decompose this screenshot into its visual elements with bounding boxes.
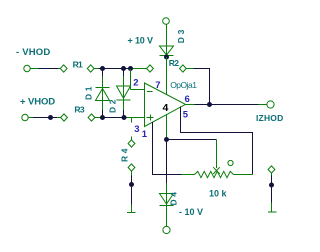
junction dot D1 bottom bbox=[100, 115, 105, 120]
wire bottom rail bbox=[95, 117, 145, 119]
svg-text:4: 4 bbox=[163, 102, 169, 114]
svg-text:7: 7 bbox=[155, 80, 160, 91]
diode D1 bbox=[96, 69, 110, 118]
svg-text:5: 5 bbox=[183, 110, 189, 121]
wire op-amp output bbox=[186, 104, 267, 106]
junction dot D2 top bbox=[121, 66, 126, 71]
wire top rail bbox=[94, 68, 147, 70]
resistor R1 right pin diamond bbox=[87, 65, 94, 72]
potentiometer 10k zigzag bbox=[195, 171, 234, 177]
wire R4 to ground bbox=[131, 176, 133, 212]
wire R2 to output node bbox=[186, 69, 210, 105]
terminal -10V circle bbox=[163, 226, 170, 233]
junction dot D1 top bbox=[100, 66, 105, 71]
diode D2 bbox=[117, 69, 131, 118]
svg-text:1: 1 bbox=[142, 129, 148, 140]
junction dot on +VHOD wire bbox=[48, 115, 53, 120]
svg-text:3: 3 bbox=[134, 124, 139, 135]
terminal +VHOD left bbox=[22, 114, 28, 120]
pot terminal circle bbox=[228, 160, 233, 165]
svg-text:6: 6 bbox=[185, 94, 190, 105]
svg-text:- VHOD: - VHOD bbox=[16, 47, 50, 58]
diode D4 bbox=[160, 194, 174, 227]
svg-text:R2: R2 bbox=[169, 58, 179, 68]
svg-text:2: 2 bbox=[133, 78, 138, 89]
wire pin4 to V- node bbox=[166, 115, 168, 140]
pin diamond right ground column bbox=[268, 166, 275, 176]
resistor R2 left pin diamond bbox=[147, 65, 154, 72]
wire +VHOD horizontal bbox=[28, 117, 60, 119]
terminal IZHOD circle bbox=[267, 101, 274, 108]
wire +10V to D3 bbox=[166, 24, 168, 55]
wire right ground column bbox=[271, 176, 273, 212]
svg-text:IZHOD: IZHOD bbox=[256, 113, 283, 123]
ground symbol right bbox=[268, 211, 277, 213]
wire D3 to op-amp pin7 bbox=[166, 57, 168, 95]
wire -VHOD horizontal bbox=[30, 68, 60, 70]
svg-text:R1: R1 bbox=[73, 60, 83, 70]
pin diamond -VHOD right / R1 left bbox=[60, 65, 67, 72]
wire V- node to pot wiper bbox=[167, 140, 217, 169]
junction dot V- node bbox=[164, 137, 169, 142]
svg-text:10 k: 10 k bbox=[209, 188, 228, 198]
wire R4 top stub bbox=[131, 118, 133, 123]
wire V- node down to D4 bbox=[166, 140, 168, 206]
svg-text:OpOja1: OpOja1 bbox=[170, 80, 197, 90]
svg-text:R3: R3 bbox=[74, 105, 84, 115]
svg-text:- 10 V: - 10 V bbox=[179, 207, 203, 217]
ground symbol left bbox=[127, 212, 136, 214]
resistor R2 right pin diamond bbox=[180, 65, 187, 72]
junction dot right ground column bbox=[269, 183, 274, 188]
junction dot below R4 bbox=[129, 182, 134, 187]
diode D3 bbox=[160, 46, 174, 56]
op-amp U1 triangle bbox=[145, 83, 186, 127]
pot wiper arrow bbox=[213, 167, 220, 174]
wire pin2 drop bbox=[131, 69, 145, 90]
svg-text:+ VHOD: + VHOD bbox=[20, 97, 55, 108]
resistor R4 top pin diamond bbox=[128, 137, 135, 148]
wire pin5 to pot right bbox=[181, 107, 253, 175]
pin diamond +VHOD right / R3 left bbox=[61, 114, 68, 121]
svg-text:+ 10 V: + 10 V bbox=[128, 36, 154, 46]
terminal +10V circle bbox=[163, 18, 170, 25]
resistor R3 right pin diamond bbox=[88, 114, 95, 121]
junction dot output node bbox=[207, 102, 212, 107]
junction dot pin2 drop bbox=[128, 66, 133, 71]
junction dot D3 cathode bbox=[164, 55, 169, 60]
terminal -VHOD left bbox=[24, 65, 30, 71]
junction dot D2 bottom bbox=[122, 115, 127, 120]
wire pin1 to pot left bbox=[153, 122, 195, 175]
resistor R4 bottom pin diamond bbox=[128, 164, 135, 176]
